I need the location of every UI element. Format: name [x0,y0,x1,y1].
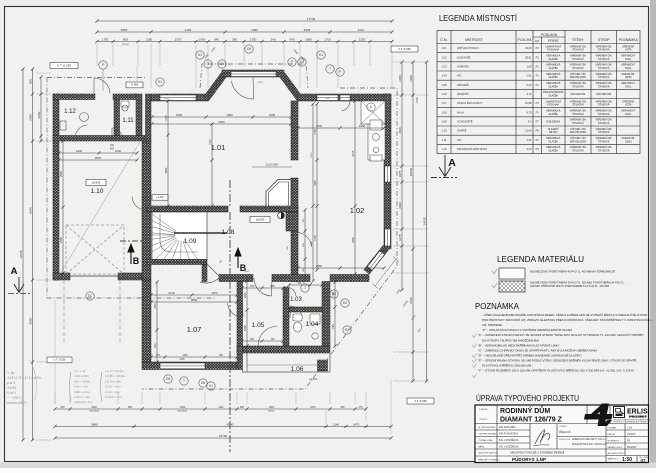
window in north wall east segment [317,95,338,101]
svg-text:3030: 3030 [398,202,402,209]
svg-text:1141: 1141 [218,406,224,409]
svg-text:1.01: 1.01 [441,46,447,50]
svg-text:1500(900): 1500(900) [177,411,187,413]
svg-text:WC: WC [457,74,462,78]
svg-text:2130: 2130 [210,139,212,145]
svg-text:T: T [304,286,306,290]
svg-text:OBÝVACÍ POKOJ: OBÝVACÍ POKOJ [457,46,479,50]
leader curve bottom left [30,360,37,400]
svg-text:1750: 1750 [102,37,109,41]
small dims near closet [252,166,292,168]
svg-text:1.07: 1.07 [187,325,202,334]
svg-text:DUB.DESKA: DUB.DESKA [546,120,560,123]
svg-text:DLAŽBA: DLAŽBA [549,58,559,61]
svg-text:P2: P2 [536,138,540,142]
svg-text:128x +14m: 128x +14m [74,390,90,394]
svg-text:VIZ. PROFESE.: VIZ. PROFESE. [482,323,503,327]
kitchen door arc at bay [231,77,254,99]
svg-text:POKOJ PRO HOSTY: POKOJ PRO HOSTY [457,101,483,105]
svg-text:450: 450 [61,406,66,409]
door house to garage in shared wall [132,196,146,210]
south wall of room 1.07 [142,362,237,370]
svg-text:2995: 2995 [59,237,63,243]
svg-text:INVESTOR:: INVESTOR: [559,439,571,441]
svg-text:5 m2 l: 5 m2 l [7,391,16,395]
window east wall upper [385,166,391,182]
svg-text:PLOCHA: PLOCHA [518,38,533,42]
wall 1.03/1.04 [289,307,322,312]
window east wall lower [385,229,391,246]
svg-text:625: 625 [240,406,245,409]
interior vertical dims near kitchen west wall [303,208,306,282]
svg-text:500: 500 [29,79,33,84]
svg-text:4,23: 4,23 [526,147,532,151]
svg-text:2465: 2465 [176,113,183,117]
svg-text:1.02: 1.02 [350,206,365,215]
svg-text:DLAŽBA: DLAŽBA [549,76,559,79]
south-east diagonal wall [367,248,387,273]
south wall of kitchen entry area [330,275,369,282]
door 1.05 to 1.03 [286,287,296,297]
svg-text:8540: 8540 [227,422,234,426]
svg-text:1000: 1000 [180,406,186,409]
house west wall lower part [142,280,151,362]
svg-text:730: 730 [250,284,255,288]
svg-text:ŠTUKOVÁ: ŠTUKOVÁ [572,122,584,125]
window in south wall 1.07 [160,363,205,369]
svg-text:"B" – KERAMOBKLAD MEZI SKŘÍŇKA: "B" – KERAMOBKLAD MEZI SKŘÍŇKAMI KUCHYŇS… [478,342,560,347]
svg-text:P2: P2 [536,74,540,78]
svg-text:1300: 1300 [155,343,157,349]
svg-text:"E" – SPODNÍ HRANA OTVORU SE U: "E" – SPODNÍ HRANA OTVORU SE UMÍ PODLE V… [478,357,636,362]
svg-text:D2: D2 [343,301,347,305]
kitchen north door arc [340,101,350,111]
svg-text:/2000/: /2000/ [625,140,632,143]
svg-text:2270: 2270 [310,406,316,409]
svg-text:DLAŽBA: DLAŽBA [549,95,559,98]
svg-text:BETON: BETON [549,131,557,134]
svg-text:ŠTUKOVÁ: ŠTUKOVÁ [598,76,610,79]
interior dims 1.07 [149,293,238,296]
interior dimension lines garage [57,151,138,154]
svg-text:ING.J.KOŽDĚLKA: ING.J.KOŽDĚLKA [499,446,519,449]
porch step lines [247,364,317,366]
extra dims in 1.05 [240,339,284,342]
svg-text:1060: 1060 [409,75,413,82]
svg-text:T: T [329,67,331,71]
extra dims right of 1.04 [333,280,336,347]
legend of rooms table [437,31,640,154]
wall 1.01/1.02 upper [291,101,298,160]
svg-text:KER.OB./2000/: KER.OB./2000/ [570,131,587,134]
svg-text:13,5+ = 8m: 13,5+ = 8m [105,385,121,389]
svg-text:10040: 10040 [409,167,413,176]
door 1.05 to 1.07 [228,302,243,317]
left dimension chain inner [31,67,34,441]
svg-text:1.09: 1.09 [441,119,447,123]
wc 1.04 fixtures [293,314,320,339]
right dimension chain outer [425,60,428,382]
svg-text:3,74: 3,74 [526,92,532,96]
svg-text:ŠTUKOVÁ: ŠTUKOVÁ [598,49,610,52]
svg-text:2100: 2100 [258,82,264,84]
svg-text:P1: P1 [536,147,540,151]
svg-text:1.04: 1.04 [441,74,447,78]
svg-text:1140: 1140 [333,422,340,426]
WC fixture in 1.11 [121,101,129,107]
svg-text:MS/2007: MS/2007 [627,446,637,449]
label box V.T.-0,150 bottom right [407,398,434,404]
svg-text:14,55 = 40,5m: 14,55 = 40,5m [105,374,125,378]
svg-text:10,88: 10,88 [525,101,532,105]
door 1.04 [290,306,302,318]
svg-text:ODP.PROJEKTANT: ODP.PROJEKTANT [478,433,498,436]
corridor south wall west segment [219,275,253,282]
svg-text:B: B [133,256,140,266]
svg-text:1.08: 1.08 [441,110,447,114]
svg-text:2 mtr = 4m: 2 mtr = 4m [105,390,120,394]
svg-text:ŠTUKOVÁ: ŠTUKOVÁ [598,67,610,70]
left chain near wall [39,75,42,142]
svg-text:P1: P1 [536,110,540,114]
svg-text:KER.OB./2000/: KER.OB./2000/ [570,140,587,143]
svg-text:6350: 6350 [218,120,225,124]
svg-text:2130: 2130 [168,291,175,295]
svg-text:P1: P1 [536,55,540,59]
wall 1.07/1.05 [237,282,243,347]
svg-text:(2100): (2100) [122,44,129,46]
svg-text:V.T.-0,150: V.T.-0,150 [398,47,411,51]
svg-text:BOLEŠOVSKÁ 252, PRAHA 10: BOLEŠOVSKÁ 252, PRAHA 10 [572,443,606,446]
svg-text:PODLAHA: PODLAHA [548,49,560,52]
svg-text:"D" – NEVOŠLAKÉ DŘEVNÍ PŘÍČ KR: "D" – NEVOŠLAKÉ DŘEVNÍ PŘÍČ KRMEM (KAMEN… [478,352,582,357]
svg-text:3060: 3060 [164,167,168,173]
svg-text:SOKL: SOKL [625,67,632,70]
svg-text:ŠTUKOVÁ: ŠTUKOVÁ [598,104,610,107]
svg-text:2,5mx = 9m: 2,5mx = 9m [74,395,91,399]
svg-text:PŘEDMĚT VÝKRESU:: PŘEDMĚT VÝKRESU: [478,459,501,462]
right dimension chain mid [411,60,414,382]
material sample 1 (solid masonry) [499,268,525,279]
garage west wall [53,94,59,280]
svg-text:1.12: 1.12 [441,147,447,151]
svg-text:900: 900 [123,37,128,41]
svg-text:14630: 14630 [423,217,427,226]
svg-text:±0,000: ±0,000 [92,180,101,184]
svg-text:1980: 1980 [226,113,233,117]
svg-text:1.05: 1.05 [441,83,447,87]
svg-text:ŠTUKOVÁ: ŠTUKOVÁ [598,140,610,143]
svg-text:SC: SC [88,294,93,298]
svg-text:DO STROPU TALÍŘOVÝMI HMOŽDINKA: DO STROPU TALÍŘOVÝMI HMOŽDINKAMI. [482,337,540,342]
tick marks left of notes [472,334,477,338]
svg-text:1250: 1250 [325,98,331,100]
svg-text:ŠTUKOVÁ: ŠTUKOVÁ [572,113,584,116]
svg-text:STAVBA:: STAVBA: [479,408,488,411]
south wall of entry block [237,346,330,353]
svg-text:OBJEKT:: OBJEKT: [479,419,488,421]
svg-text:PODLAHA: PODLAHA [548,104,560,107]
svg-text:ŠTUKOVÁ: ŠTUKOVÁ [572,85,584,88]
svg-text:1740: 1740 [314,235,317,241]
svg-text:17730: 17730 [307,17,316,21]
svg-text:2100: 2100 [115,149,122,153]
porch pillar [318,360,328,371]
svg-text:ING.J.KOŽDĚLKA: ING.J.KOŽDĚLKA [499,439,519,442]
shared wall garage/house [142,141,151,280]
svg-text:U.T.-0,150: U.T.-0,150 [54,358,67,362]
porch 1.06 outline [243,353,331,372]
window in north wall west segment [160,95,196,101]
svg-text:K1: K1 [209,384,213,388]
flue circle symbol [278,212,285,219]
svg-text:"C" – ZÁBRADLÍ CHRÁNÍCÍ OKNO S: "C" – ZÁBRADLÍ CHRÁNÍCÍ OKNO SE OPATŘÍ P… [478,347,597,352]
svg-text:1,61: 1,61 [526,138,532,142]
garage block north wall left segment [53,94,95,100]
label box U.T.-0,290 top left [50,63,78,69]
interior dims corridor [240,286,284,289]
wall 1.05 / 1.03-1.04 [283,287,289,346]
top dimension chain third row [95,40,393,43]
svg-text:1790: 1790 [316,124,323,128]
svg-text:21,06: 21,06 [525,129,532,133]
driveway dashed edges below garage [64,280,120,342]
svg-text:1:50: 1:50 [622,457,632,463]
level box garage [86,180,106,186]
svg-text:3400: 3400 [351,237,355,243]
garage block north wall right segment [113,94,137,100]
svg-text:4010: 4010 [358,28,365,32]
svg-text:AMERICAN SECURITY S.R.O.: AMERICAN SECURITY S.R.O. [572,438,605,441]
left dimension chain outer [21,67,24,441]
small check marks [492,269,497,274]
right dimension chain inner [400,60,403,291]
svg-text:1070: 1070 [175,37,182,41]
svg-text:1400: 1400 [76,149,83,153]
svg-text:15750: 15750 [219,434,228,438]
top dimension chain second row [95,30,393,33]
svg-text:1000: 1000 [91,406,97,409]
door arc 1.11 [112,128,122,138]
svg-text:1150: 1150 [146,37,153,41]
handwritten calculation notes [6,371,42,405]
svg-text:1.12: 1.12 [64,109,76,115]
svg-text:ERLIS S.R.O. BĚLEHRADSKÁ 58, P: ERLIS S.R.O. BĚLEHRADSKÁ 58, PRAHA 2 [614,421,648,424]
svg-text:1090: 1090 [333,291,335,297]
svg-text:DRUH PROJEKTU :: DRUH PROJEKTU : [478,453,498,455]
svg-text:ARCHITEKTONICKÉ A STAVEBNÍ ŘEŠ: ARCHITEKTONICKÉ A STAVEBNÍ ŘEŠENÍ [510,450,564,455]
svg-text:1.02: 1.02 [441,55,447,59]
svg-text:1075: 1075 [398,170,402,177]
svg-text:ÚPRAVA TYPOVÉHO PROJEKTU: ÚPRAVA TYPOVÉHO PROJEKTU [476,394,579,403]
svg-text:LEGENDA MATERIÁLU: LEGENDA MATERIÁLU [497,254,584,264]
svg-text:1.01: 1.01 [211,143,226,152]
porch entrance door arc [258,326,278,346]
svg-text:K1: K1 [198,53,202,57]
svg-text:1 A4: 1 A4 [627,426,632,429]
svg-text:8440: 8440 [29,207,33,214]
svg-text:1.03: 1.03 [290,297,302,303]
svg-text:nadkryti x 8m: nadkryti x 8m [74,400,93,404]
svg-text:640: 640 [214,37,219,41]
kitchen counter along east wall [361,101,385,161]
house west wall upper [146,94,152,141]
svg-text:STROP: STROP [598,38,610,42]
svg-text:ŠTUKOVÁ: ŠTUKOVÁ [572,104,584,107]
svg-text:FORMÁT: FORMÁT [608,426,618,429]
car space dashed X in garage [66,225,124,274]
svg-text:ŠTUKOVÁ: ŠTUKOVÁ [598,113,610,116]
svg-text:1.04: 1.04 [306,321,319,328]
interior vertical dim lines [166,99,169,207]
svg-text:POZNÁMKA: POZNÁMKA [475,301,519,311]
svg-text:+1,470: +1,470 [156,196,164,199]
interior dims kitchen [296,126,385,129]
svg-text:300: 300 [128,406,133,409]
svg-text:1.03: 1.03 [441,64,447,68]
svg-text:TECHNICKÁ MÍSTNOST: TECHNICKÁ MÍSTNOST [457,147,488,151]
svg-text:U.T.-0,290: U.T.-0,290 [57,64,71,68]
svg-text:10/2007: 10/2007 [627,433,636,436]
door 1.12 entry [94,78,110,94]
svg-text:1460: 1460 [333,323,335,329]
svg-text:4640: 4640 [398,127,402,134]
svg-text:"F" – OTVOR ROZMĚRŮ 150 X 150: "F" – OTVOR ROZMĚRŮ 150 X 150 MM OPATŘEN… [478,368,634,373]
garage south wall right of garage door [118,273,142,280]
extra small dims along south wall 1.07 [149,355,238,358]
stair rail edge line [174,232,227,234]
wall jog east of stairs [202,265,207,282]
svg-text:zmena 4/5/7 l: zmena 4/5/7 l [6,401,27,405]
svg-text:/2000/: /2000/ [625,76,632,79]
svg-text:2990: 2990 [29,114,33,121]
svg-text:PROJEKT: PROJEKT [629,415,648,419]
svg-text:1175: 1175 [164,115,168,121]
door 1.08 to 1.05 [254,278,272,296]
svg-text:O4: O4 [220,62,225,66]
svg-text:(95): (95) [110,148,114,151]
svg-text:1275: 1275 [398,234,402,241]
svg-text:– PŘED ZAHÁJENÍM BETONÁŽE STRO: – PŘED ZAHÁJENÍM BETONÁŽE STROPNÍCH DESE… [482,312,647,317]
svg-text:28,81: 28,81 [525,55,532,59]
level label +1,470 [152,195,168,201]
east wall of wc 1.04 [322,282,330,347]
svg-text:LIŠTA: LIŠTA [625,49,632,52]
corridor south wall east segment [272,275,310,282]
svg-text:2495: 2495 [269,113,276,117]
svg-text:140x x10m: 140x x10m [74,374,90,378]
wall niche below closet [286,212,298,231]
svg-text:3500: 3500 [95,156,102,160]
svg-text:WC: WC [457,138,462,142]
circled marker above garage door [99,61,107,69]
svg-text:3860: 3860 [191,298,198,302]
bay window west diagonal wall [206,75,224,100]
svg-text:"K" – ZATEPLENÍ STROPNÍ DESKY: "K" – ZATEPLENÍ STROPNÍ DESKY ZE SPODNÍ … [478,332,644,337]
svg-text:PS: PS [627,439,631,442]
sink fixture in 1.12 [80,113,89,122]
svg-text:1500(900): 1500(900) [89,411,99,413]
garage diagonal guide line [60,142,140,274]
svg-text:PRO PROSTUPY ROZVODŮ (ÚT, ZDRA: PRO PROSTUPY ROZVODŮ (ÚT, ZDRAVO, ELEKTR… [482,317,653,322]
svg-text:33,06: 33,06 [525,46,532,50]
svg-text:2050: 2050 [155,303,157,309]
svg-text:ŠTUKOVÁ: ŠTUKOVÁ [598,58,610,61]
svg-text:SOKL: SOKL [625,113,632,116]
top dimension chain overall 17730 [95,19,393,22]
svg-text:07: 07 [641,458,646,463]
svg-text:1790: 1790 [314,129,317,135]
circled markers along north facade [196,51,204,59]
svg-text:1500: 1500 [182,355,188,357]
svg-text:v.o.2 = 10,4m: v.o.2 = 10,4m [105,369,124,373]
svg-text:DLAŽBA: DLAŽBA [549,113,559,116]
svg-text:1.06: 1.06 [291,366,304,373]
kitchen vertical dim chain [315,102,318,271]
svg-text:2230: 2230 [359,37,366,41]
svg-text:O6: O6 [201,381,206,385]
door in north wall east segment [340,95,350,101]
svg-text:HALA: HALA [457,110,464,114]
svg-text:POPIS: POPIS [548,39,559,43]
wall east of 1.11 [136,94,142,136]
svg-text:PŘELOUČ: PŘELOUČ [559,431,571,434]
svg-text:2425: 2425 [314,180,317,186]
roof overhang dashed line [47,64,397,389]
section arrow B lower [235,249,241,269]
interior dimension lines 1.01 [150,115,292,118]
svg-text:P7: P7 [536,119,540,123]
svg-text:ŠTUKOVÁ: ŠTUKOVÁ [598,131,610,134]
svg-text:1060: 1060 [398,75,402,82]
handwritten table notes column 2 [74,369,125,404]
dims in 1.01 vertical mid [210,122,213,207]
svg-text:PODLAHA: PODLAHA [541,33,558,37]
svg-text:2360: 2360 [359,124,366,128]
svg-text:Č.M.: Č.M. [440,37,447,42]
garage door opening [70,275,118,277]
svg-text:VÁP.CEM.OM.: VÁP.CEM.OM. [596,93,612,96]
svg-text:ZAKÁZK.ČÍSLO: ZAKÁZK.ČÍSLO [608,446,623,449]
svg-text:3400: 3400 [311,240,313,246]
svg-text:275: 275 [359,406,364,409]
signature scribble [535,430,550,444]
svg-text:DIAMANT 126/79 Z: DIAMANT 126/79 Z [500,417,563,424]
svg-text:-0,050: -0,050 [131,83,139,87]
svg-text:LIŠTA: LIŠTA [625,104,632,107]
svg-text:LEGENDA MÍSTNOSTÍ: LEGENDA MÍSTNOSTÍ [439,13,518,23]
house east wall [384,94,391,249]
extension lines top [97,44,392,88]
svg-text:VYPRACOVAL: VYPRACOVAL [478,439,493,442]
svg-text:SOKL: SOKL [625,85,632,88]
partition between 1.12 and 1.11 [114,99,120,136]
svg-text:O5: O5 [247,47,252,51]
svg-text:9,75: 9,75 [526,110,532,114]
svg-text:1.05: 1.05 [252,322,265,329]
svg-text:PŮDORYS 1.NP: PŮDORYS 1.NP [512,455,546,462]
svg-text:MÍSTNOST: MÍSTNOST [465,38,483,42]
svg-text:ING.R.HANUŠKA: ING.R.HANUŠKA [499,433,518,436]
svg-text:P1: P1 [536,83,540,87]
svg-text:POZNÁMKA: POZNÁMKA [619,38,639,42]
svg-text:5275: 5275 [351,150,355,156]
bottom dimension chain second [53,425,392,428]
svg-text:A: A [448,157,456,169]
chimney/closet block in 1.01 corner [266,180,291,212]
svg-text:1970: 1970 [211,291,218,295]
svg-text:1500: 1500 [164,98,170,100]
